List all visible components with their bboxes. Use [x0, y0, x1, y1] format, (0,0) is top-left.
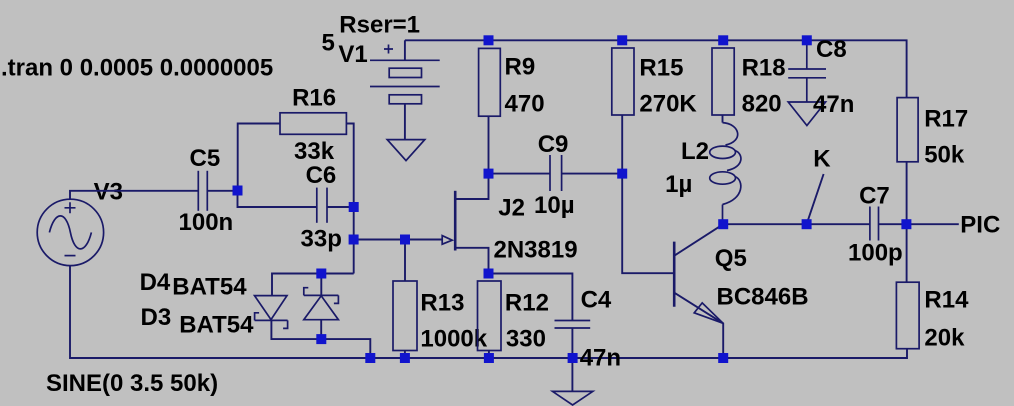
svg-text:100n: 100n [179, 209, 234, 236]
wire to C7 [807, 223, 870, 225]
Q5 collector lead [675, 224, 724, 255]
resistor R16 [280, 113, 346, 135]
wire C9 right [562, 173, 623, 175]
junction gate net left [349, 235, 359, 245]
junction C5 node [233, 186, 243, 196]
svg-text:1µ: 1µ [665, 171, 692, 198]
V3 minus sign [65, 255, 76, 257]
resistor R9 [479, 48, 501, 116]
wire R18 bottom lead [722, 115, 724, 123]
svg-text:5: 5 [322, 30, 335, 57]
ground below V1 [387, 140, 425, 161]
svg-text:33k: 33k [294, 138, 335, 165]
wire R16 right down [346, 124, 353, 274]
junction PIC node [901, 219, 911, 229]
J2 source lead [456, 248, 489, 274]
junction rail R13 [400, 353, 410, 363]
wire R13 top lead [404, 240, 406, 282]
svg-text:BC846B: BC846B [717, 283, 809, 310]
voltage source V1 top lead [404, 40, 406, 60]
junction rail Q5 emitter [718, 353, 728, 363]
wire junction up to R16 left [238, 124, 280, 191]
junction drain node [484, 169, 494, 179]
svg-text:BAT54: BAT54 [179, 311, 254, 338]
wire C4 bottom through rail to ground [571, 328, 573, 391]
wire V3 bottom + ground rail [70, 266, 907, 358]
V1 plus sign [384, 45, 393, 54]
svg-text:.tran 0 0.0005 0.0000005: .tran 0 0.0005 0.0000005 [1, 55, 273, 82]
junction rail C4 [568, 353, 578, 363]
capacitor C6 [317, 188, 327, 223]
svg-text:J2: J2 [498, 194, 525, 221]
wire D3 bottom lead [320, 320, 322, 339]
svg-text:270K: 270K [639, 90, 697, 117]
svg-text:SINE(0 3.5 50k): SINE(0 3.5 50k) [46, 370, 218, 397]
capacitor C9 [550, 155, 562, 191]
resistor R17 [897, 98, 918, 162]
wire diode bottom to rail [321, 339, 370, 358]
J2 gate arrow [442, 236, 452, 245]
voltage source V1 battery symbol [370, 60, 440, 104]
wire top rail [405, 40, 907, 97]
svg-text:Rser=1: Rser=1 [339, 12, 420, 39]
wire R17 bottom to PIC node [906, 162, 908, 224]
junction diode top [316, 269, 326, 279]
Q5 emitter lead [675, 293, 724, 358]
svg-text:R14: R14 [924, 286, 969, 313]
junction gate R13 [400, 235, 410, 245]
svg-text:V1: V1 [338, 41, 367, 68]
wire collector node right [723, 223, 806, 225]
svg-text:R18: R18 [742, 55, 786, 82]
ground below C8 [788, 102, 825, 126]
ground below C4 [553, 391, 593, 405]
svg-text:R12: R12 [505, 289, 549, 316]
inductor L2 [710, 123, 741, 220]
J2 drain lead [456, 174, 489, 199]
junction source node [484, 269, 494, 279]
junction rail R12 [484, 353, 494, 363]
svg-text:330: 330 [506, 325, 546, 352]
svg-text:D4: D4 [140, 269, 171, 296]
junction K node [802, 219, 812, 229]
wire K stub [807, 174, 824, 224]
svg-text:Q5: Q5 [715, 245, 747, 272]
junction R15 bottom node [617, 169, 627, 179]
resistor R18 [712, 48, 734, 115]
wire gate net [354, 239, 443, 241]
Q5 emitter arrow [694, 303, 723, 323]
svg-text:R13: R13 [420, 289, 464, 316]
svg-text:C8: C8 [816, 36, 847, 63]
capacitor C7 [870, 207, 879, 241]
svg-text:C6: C6 [306, 162, 337, 189]
capacitor C5 [198, 171, 207, 211]
junction diode bottom [316, 334, 326, 344]
wire R14 top lead [906, 224, 908, 282]
wire R9 bottom to drain node [488, 116, 490, 173]
svg-text:R15: R15 [639, 55, 683, 82]
svg-text:R16: R16 [292, 85, 336, 112]
jfet J2 channel bar [454, 191, 457, 251]
transistor Q5 base bar [673, 242, 676, 307]
wire C7 right to PIC node [879, 223, 907, 225]
svg-text:47n: 47n [580, 345, 621, 372]
wire junction down to C6 [238, 191, 317, 208]
diode D3 [304, 288, 339, 320]
wire C5 to junction [207, 190, 237, 192]
svg-text:C7: C7 [859, 183, 890, 210]
svg-text:PIC: PIC [960, 212, 1000, 239]
wire D3 top lead [320, 274, 322, 296]
junction top rail C8 [802, 35, 812, 45]
junction C6 right [349, 202, 359, 212]
junction collector node [718, 219, 728, 229]
wire R13 bottom [404, 351, 406, 359]
junction top rail R15 [617, 35, 627, 45]
junction top rail R18 [718, 35, 728, 45]
resistor R14 [896, 282, 919, 349]
capacitor C4 [555, 321, 591, 329]
V3 plus sign [65, 202, 76, 213]
svg-text:K: K [813, 146, 831, 173]
diode D4 [255, 296, 288, 329]
svg-text:33p: 33p [301, 226, 342, 253]
svg-text:2N3819: 2N3819 [494, 237, 578, 264]
svg-text:D3: D3 [141, 304, 172, 331]
wire V3 top to C5 [70, 191, 198, 200]
svg-text:100p: 100p [848, 240, 903, 267]
wire R12 bottom [488, 351, 490, 359]
svg-text:V3: V3 [94, 179, 123, 206]
svg-text:R9: R9 [505, 53, 536, 80]
junction top rail R9 [484, 35, 494, 45]
resistor R12 [478, 281, 502, 351]
svg-text:BAT54: BAT54 [172, 274, 247, 301]
junction rail diode [365, 353, 375, 363]
svg-text:47n: 47n [813, 91, 854, 118]
svg-text:470: 470 [505, 90, 545, 117]
wire C9 left [489, 173, 551, 175]
wire C6 right [327, 206, 354, 208]
svg-text:820: 820 [742, 90, 782, 117]
svg-text:L2: L2 [681, 138, 709, 165]
svg-text:C5: C5 [190, 145, 221, 172]
wire V1 bottom lead [404, 104, 406, 140]
svg-text:R17: R17 [924, 105, 968, 132]
wire source node to C4 [489, 274, 573, 321]
svg-text:50k: 50k [924, 142, 965, 169]
capacitor C8 [788, 40, 826, 102]
resistor R15 [612, 48, 634, 115]
wire R15 node down to Q5 base [622, 174, 674, 274]
wire PIC stub [906, 223, 958, 225]
svg-text:10µ: 10µ [534, 192, 575, 219]
wire diode top link [272, 274, 354, 296]
svg-text:C9: C9 [538, 131, 569, 158]
resistor R13 [393, 281, 417, 351]
wire D4 bottom [271, 320, 321, 339]
svg-text:20k: 20k [924, 325, 965, 352]
voltage source V3 circle [37, 199, 103, 265]
svg-text:C4: C4 [581, 287, 612, 314]
wire R15 bottom [621, 115, 623, 174]
V3 sine wave [49, 216, 91, 249]
